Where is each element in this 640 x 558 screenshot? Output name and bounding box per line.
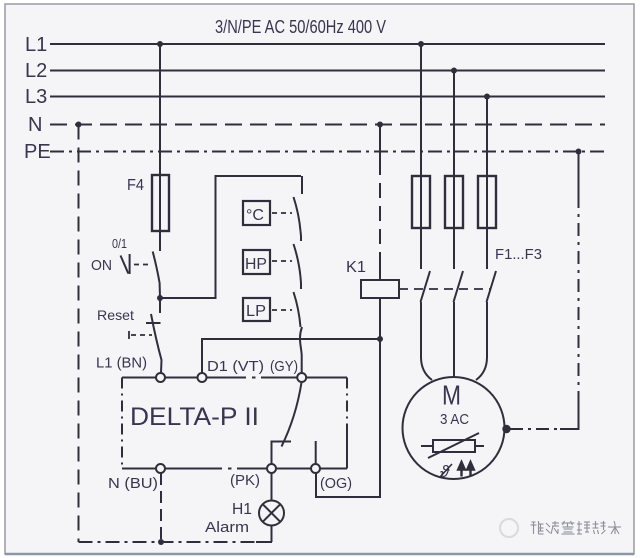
svg-text:HP: HP xyxy=(245,256,267,273)
wire pole3 into motor xyxy=(476,357,487,380)
wire pole1 into motor xyxy=(421,357,432,380)
svg-text:LP: LP xyxy=(246,303,266,320)
svg-text:N: N xyxy=(28,114,42,136)
svg-text:F1...F3: F1...F3 xyxy=(495,246,542,263)
svg-text:N (BU): N (BU) xyxy=(108,475,158,492)
watermark text xyxy=(531,521,622,534)
fuse F3 xyxy=(478,176,542,263)
theta symbol xyxy=(440,462,452,481)
contactor K1 pole 1 xyxy=(421,228,431,357)
svg-text:(PK): (PK) xyxy=(230,472,260,489)
fuse F1 xyxy=(412,176,430,228)
terminal N (BU) xyxy=(108,464,165,492)
wire HP to LP contact xyxy=(300,277,303,283)
wire L2 to fuse F2 xyxy=(453,71,455,177)
DELTA-P II box xyxy=(122,378,347,469)
actuator link K1 (dashed) xyxy=(399,288,491,290)
bus L1 xyxy=(25,34,605,56)
svg-text:L1: L1 xyxy=(25,34,47,56)
node PE tap xyxy=(576,149,582,155)
node L1 tap for F1 xyxy=(418,41,424,47)
wire LP to terminal GY (crosses D1 wire) xyxy=(300,327,302,373)
node N tap for K1 xyxy=(377,122,383,128)
svg-text:ON: ON xyxy=(91,257,112,274)
svg-text:°C: °C xyxy=(246,207,264,224)
switch LP contact xyxy=(294,283,302,327)
svg-text:M: M xyxy=(442,380,461,411)
internal changeover contact of DELTA-P xyxy=(271,383,316,465)
node N tap left xyxy=(76,122,82,128)
svg-text:L1 (BN): L1 (BN) xyxy=(96,355,147,372)
terminal (GY) xyxy=(270,358,306,382)
node A after switch 0/1 xyxy=(157,295,163,301)
wire N tap down to coil K1 (dashed mid) xyxy=(379,125,381,281)
wire node B down to OG loop xyxy=(316,339,380,497)
wire L1 to fuse F1 xyxy=(420,44,422,176)
bus PE (dash-dot) xyxy=(24,141,605,163)
svg-text:3 AC: 3 AC xyxy=(440,411,469,428)
svg-text:(OG): (OG) xyxy=(320,475,352,492)
node N(BU) to bottom run xyxy=(158,539,164,545)
terminal D1 (VT) xyxy=(198,358,265,382)
fuse F4 xyxy=(127,175,169,231)
watermark logo xyxy=(500,519,518,537)
temperature arrows xyxy=(458,461,475,477)
wire PK to lamp H1 xyxy=(271,473,273,501)
svg-text:0/1: 0/1 xyxy=(112,236,127,251)
wire coil K1 to node B xyxy=(379,298,381,339)
node L3 tap for F3 xyxy=(484,94,490,100)
svg-text:L2: L2 xyxy=(25,60,47,82)
svg-text:L3: L3 xyxy=(25,86,47,108)
node L2 tap for F2 xyxy=(451,68,457,74)
svg-text:H1: H1 xyxy=(232,501,252,518)
bus L2 xyxy=(25,60,605,82)
wire node B to terminal D1 xyxy=(202,339,380,373)
wire L1 tap down to F4 xyxy=(159,44,161,175)
switch 0/1 ON (manual) xyxy=(91,236,160,298)
wire node A to safety-chain riser xyxy=(160,176,301,298)
wire N tap down left side (dashed) xyxy=(78,125,80,543)
switch Reset xyxy=(97,298,162,373)
svg-text:F4: F4 xyxy=(127,177,144,194)
lamp H1 Alarm xyxy=(205,501,284,537)
wire bottom N run (dash-dot) xyxy=(79,541,273,543)
sensor box LP xyxy=(243,298,292,321)
svg-text:PE: PE xyxy=(24,141,51,163)
switch HP contact xyxy=(294,236,302,277)
wire lamp H1 to bottom N run xyxy=(271,526,273,543)
wire °C to HP contact xyxy=(300,231,303,236)
svg-text:(GY): (GY) xyxy=(270,358,298,375)
terminal (OG) xyxy=(311,464,352,492)
bus N (dashed) xyxy=(28,114,605,136)
node L1 tap for F4 xyxy=(157,41,163,47)
terminal (PK) xyxy=(230,464,276,489)
thermistor inside motor xyxy=(421,433,484,458)
coil K1 xyxy=(346,259,399,298)
wire motor to PE (dash-dot) xyxy=(510,152,579,430)
svg-text:Reset: Reset xyxy=(97,307,134,323)
node motor PE xyxy=(502,425,510,433)
wire L3 to fuse F3 xyxy=(486,97,488,177)
contactor K1 pole 2 xyxy=(454,228,464,377)
svg-text:D1 (VT): D1 (VT) xyxy=(207,358,264,375)
bus L3 xyxy=(25,86,605,108)
sensor box °C xyxy=(243,201,292,225)
sensor box HP xyxy=(243,250,292,274)
contactor K1 pole 3 xyxy=(487,228,497,357)
svg-text:K1: K1 xyxy=(346,259,366,276)
motor M 3AC xyxy=(403,377,505,479)
wire N(BU) drop (dashed) xyxy=(160,473,162,542)
wire F4 to switch 0/1 xyxy=(159,231,161,251)
svg-text:DELTA-P II: DELTA-P II xyxy=(130,403,259,431)
svg-text:3/N/PE AC 50/60Hz 400 V: 3/N/PE AC 50/60Hz 400 V xyxy=(215,17,386,37)
switch °C contact xyxy=(294,176,303,231)
terminal L1 (BN) xyxy=(96,355,165,383)
svg-text:Alarm: Alarm xyxy=(205,519,249,536)
node B (K1 / D1 / OG junction) xyxy=(377,336,383,342)
fuse F2 xyxy=(445,176,463,228)
title 3/N/PE AC 50/60Hz 400 V xyxy=(215,17,386,37)
